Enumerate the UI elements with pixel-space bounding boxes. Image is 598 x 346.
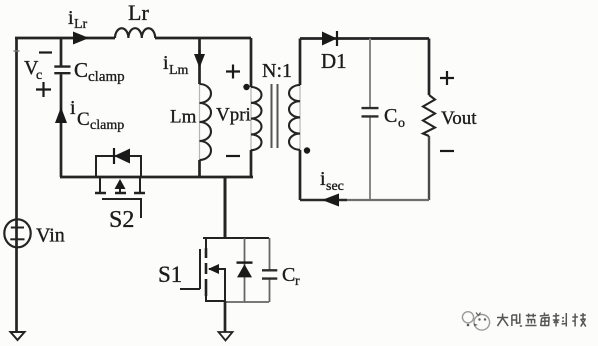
char ke — [553, 313, 566, 327]
capacitor Cr branch — [269, 238, 271, 302]
char lan — [525, 314, 536, 326]
svg-text:S2: S2 — [109, 207, 134, 233]
ground left — [11, 332, 25, 340]
wire secondary top — [300, 37, 429, 40]
svg-text:clamp: clamp — [88, 69, 125, 85]
svg-text:Lr: Lr — [74, 17, 88, 32]
current arrow iLr — [73, 32, 89, 45]
svg-text:o: o — [398, 116, 405, 131]
wire S1 bottom node — [225, 301, 269, 303]
diode D1 — [322, 32, 337, 46]
transistor S2 mosfet — [100, 177, 140, 192]
wire S1 drain — [224, 177, 227, 238]
label Vout plus — [440, 71, 454, 85]
svg-text:i: i — [70, 97, 76, 119]
wire S2 horizontal — [60, 176, 253, 179]
svg-text:Vpri: Vpri — [216, 105, 251, 126]
capacitor Cr — [262, 270, 277, 278]
scan tick on rail — [14, 50, 20, 52]
label plus Vc — [36, 82, 51, 97]
svg-text:N:1: N:1 — [262, 60, 292, 82]
svg-text:C: C — [77, 109, 90, 130]
wire top horizontal primary side — [15, 37, 251, 40]
wire Lm branch — [198, 38, 201, 177]
voltage source Vin — [4, 219, 30, 247]
label Vc minus — [39, 51, 52, 53]
svg-text:C: C — [282, 264, 295, 286]
current arrow iLm — [194, 54, 205, 68]
current arrow iCclamp — [55, 107, 67, 123]
label Vpri minus — [226, 155, 240, 157]
svg-text:C: C — [384, 105, 397, 127]
diode S1 body — [237, 264, 252, 277]
svg-text:r: r — [295, 274, 300, 289]
S2 body diode — [114, 149, 130, 164]
svg-text:Lr: Lr — [128, 0, 149, 25]
S1 body diode branch — [244, 238, 246, 302]
inductor Lm — [199, 84, 201, 160]
svg-text:Vout: Vout — [441, 108, 477, 129]
svg-text:sec: sec — [326, 179, 344, 194]
resistor Vout — [423, 95, 435, 136]
svg-text:S1: S1 — [158, 262, 182, 287]
svg-text:clamp: clamp — [90, 118, 124, 133]
char hai — [540, 313, 549, 327]
wire output right branch — [428, 39, 431, 96]
primary dot — [243, 84, 249, 90]
transistor S1 mosfet — [205, 238, 207, 248]
transformer secondary winding — [299, 39, 302, 201]
inductor Lr — [115, 28, 155, 38]
wire S1 source to ground — [224, 301, 227, 332]
transformer core — [272, 84, 278, 148]
watermark logo icon — [462, 312, 489, 330]
label Vout minus — [440, 150, 454, 152]
transformer primary winding — [250, 38, 253, 177]
secondary dot — [304, 147, 310, 153]
ground S1 — [219, 332, 233, 341]
wire Cclamp branch — [60, 38, 63, 177]
S2 body diode loop — [96, 156, 141, 177]
svg-text:c: c — [36, 68, 42, 83]
wire Co branch — [369, 39, 371, 201]
svg-text:Lm: Lm — [170, 107, 197, 128]
svg-text:D1: D1 — [321, 49, 347, 73]
capacitor Co — [362, 108, 379, 116]
current arrow isec — [322, 194, 339, 207]
svg-text:Lm: Lm — [169, 63, 189, 78]
svg-text:C: C — [74, 58, 88, 82]
svg-text:Vin: Vin — [36, 225, 65, 247]
wire left rail — [15, 38, 18, 332]
label Vpri plus — [226, 65, 240, 79]
char yin — [512, 314, 522, 327]
char ji — [572, 313, 585, 327]
wire secondary bottom — [300, 199, 347, 201]
capacitor Cclamp — [54, 67, 70, 74]
watermark text — [497, 313, 586, 327]
wire S1 top node — [203, 237, 269, 239]
char da — [497, 314, 508, 327]
